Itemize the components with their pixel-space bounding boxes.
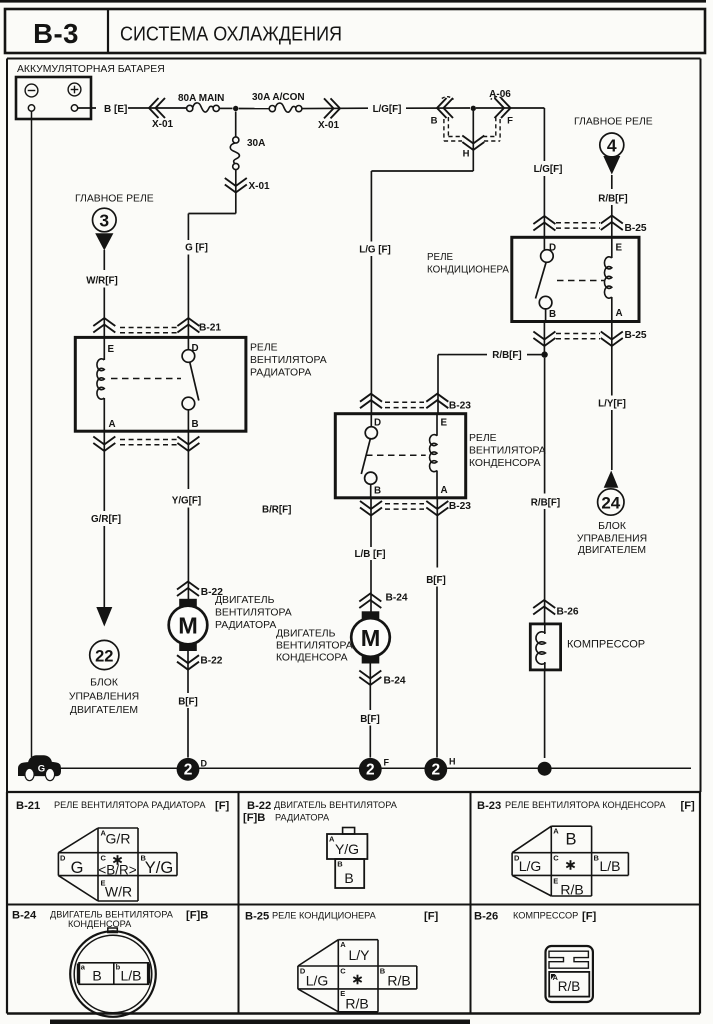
svg-text:X-01: X-01	[318, 120, 340, 131]
svg-text:СИСТЕМА ОХЛАЖДЕНИЯ: СИСТЕМА ОХЛАЖДЕНИЯ	[120, 23, 342, 46]
svg-text:B-26: B-26	[557, 607, 579, 618]
svg-text:B-22: B-22	[200, 656, 222, 667]
svg-text:A: A	[441, 485, 448, 496]
svg-text:B: B	[380, 967, 386, 976]
svg-text:E: E	[108, 344, 115, 355]
svg-text:[F]: [F]	[215, 800, 230, 812]
svg-text:30A A/CON: 30A A/CON	[252, 92, 305, 103]
svg-text:Y/G[F]: Y/G[F]	[172, 496, 201, 507]
svg-text:A: A	[553, 827, 559, 836]
svg-text:L/G[F]: L/G[F]	[534, 164, 563, 175]
svg-text:4: 4	[607, 136, 617, 156]
svg-text:УПРАВЛЕНИЯ: УПРАВЛЕНИЯ	[577, 534, 647, 545]
svg-text:ГЛАВНОЕ РЕЛЕ: ГЛАВНОЕ РЕЛЕ	[75, 194, 154, 205]
svg-text:ВЕНТИЛЯТОРА: ВЕНТИЛЯТОРА	[469, 446, 546, 457]
svg-text:КОНДЕНСОРА: КОНДЕНСОРА	[68, 919, 132, 929]
svg-text:L/Y[F]: L/Y[F]	[598, 399, 626, 410]
svg-text:B: B	[192, 419, 199, 430]
svg-text:24: 24	[601, 494, 620, 513]
svg-text:3: 3	[99, 211, 109, 231]
svg-text:R/B: R/B	[387, 973, 410, 989]
svg-text:Y/G: Y/G	[335, 841, 359, 857]
svg-text:B: B	[431, 116, 438, 127]
svg-text:B: B	[337, 860, 343, 869]
svg-text:L/G: L/G	[519, 858, 542, 874]
svg-text:КОНДЕНСОРА: КОНДЕНСОРА	[469, 458, 541, 469]
svg-text:[F]B: [F]B	[243, 812, 265, 824]
svg-text:КОМПРЕССОР: КОМПРЕССОР	[567, 639, 645, 651]
svg-text:B-21: B-21	[199, 323, 221, 334]
svg-text:УПРАВЛЕНИЯ: УПРАВЛЕНИЯ	[69, 692, 139, 703]
svg-text:B-25: B-25	[625, 330, 647, 341]
svg-text:L/Y: L/Y	[348, 947, 370, 963]
svg-text:B[F]: B[F]	[178, 697, 198, 708]
svg-text:E: E	[441, 418, 448, 429]
svg-text:РЕЛЕ ВЕНТИЛЯТОРА КОНДЕНСОРА: РЕЛЕ ВЕНТИЛЯТОРА КОНДЕНСОРА	[505, 800, 666, 810]
svg-text:B-25: B-25	[625, 223, 647, 234]
svg-text:W/R: W/R	[105, 884, 132, 900]
svg-text:B: B	[374, 486, 381, 497]
svg-text:L/B: L/B	[599, 858, 620, 874]
svg-text:R/B: R/B	[345, 996, 368, 1012]
svg-text:B-23: B-23	[449, 501, 471, 512]
svg-text:M: M	[178, 612, 198, 638]
svg-text:E: E	[616, 243, 623, 254]
svg-text:C: C	[101, 854, 107, 863]
svg-text:E: E	[553, 877, 558, 886]
svg-text:ВЕНТИЛЯТОРА: ВЕНТИЛЯТОРА	[215, 608, 292, 619]
svg-text:L/G[F]: L/G[F]	[373, 104, 402, 115]
svg-text:A: A	[109, 419, 116, 430]
svg-text:D: D	[201, 759, 208, 769]
svg-text:B-21: B-21	[16, 800, 40, 812]
svg-text:L/B [F]: L/B [F]	[354, 549, 385, 560]
svg-text:R/B[F]: R/B[F]	[531, 498, 560, 509]
svg-text:B[F]: B[F]	[360, 714, 380, 725]
svg-text:R/B: R/B	[558, 979, 581, 994]
svg-text:C: C	[340, 967, 346, 976]
svg-text:W/R[F]: W/R[F]	[86, 276, 118, 287]
svg-text:L/B: L/B	[120, 968, 141, 984]
svg-text:B-25: B-25	[245, 911, 269, 923]
svg-text:РЕЛЕ: РЕЛЕ	[469, 433, 497, 444]
svg-text:G/R[F]: G/R[F]	[91, 514, 121, 525]
svg-text:B[F]: B[F]	[426, 575, 446, 586]
svg-text:F: F	[384, 758, 390, 768]
svg-text:2: 2	[431, 762, 440, 779]
svg-text:ДВИГАТЕЛЕМ: ДВИГАТЕЛЕМ	[70, 705, 138, 716]
svg-text:ДВИГАТЕЛЕМ: ДВИГАТЕЛЕМ	[578, 545, 646, 556]
svg-text:РАДИАТОРА: РАДИАТОРА	[215, 620, 276, 631]
svg-text:R/B[F]: R/B[F]	[598, 194, 627, 205]
svg-text:ДВИГАТЕЛЬ ВЕНТИЛЯТОРА: ДВИГАТЕЛЬ ВЕНТИЛЯТОРА	[274, 800, 398, 810]
svg-text:B-23: B-23	[449, 401, 471, 412]
svg-text:G [F]: G [F]	[185, 243, 208, 254]
svg-text:B-22: B-22	[247, 800, 271, 812]
svg-text:A: A	[340, 940, 346, 949]
svg-text:ДВИГАТЕЛЬ: ДВИГАТЕЛЬ	[276, 629, 336, 640]
svg-text:РЕЛЕ ВЕНТИЛЯТОРА РАДИАТОРА: РЕЛЕ ВЕНТИЛЯТОРА РАДИАТОРА	[54, 800, 206, 810]
svg-text:B: B	[565, 831, 576, 849]
svg-text:G/R: G/R	[106, 831, 131, 847]
svg-text:G: G	[38, 764, 45, 775]
svg-text:Y/G: Y/G	[145, 859, 173, 877]
svg-text:X-01: X-01	[152, 119, 174, 130]
svg-text:[F]B: [F]B	[186, 910, 208, 922]
svg-text:B-24: B-24	[384, 676, 406, 687]
svg-text:L/G [F]: L/G [F]	[359, 245, 391, 256]
svg-text:КОМПРЕССОР: КОМПРЕССОР	[513, 911, 578, 921]
svg-text:C: C	[553, 854, 559, 863]
svg-text:H: H	[463, 149, 470, 160]
svg-text:РАДИАТОРА: РАДИАТОРА	[250, 368, 311, 379]
svg-text:[F]: [F]	[424, 911, 439, 923]
svg-text:БЛОК: БЛОК	[598, 521, 626, 532]
svg-text:B-24: B-24	[386, 593, 408, 604]
svg-text:30A: 30A	[247, 138, 265, 149]
svg-text:B: B	[92, 968, 101, 984]
svg-text:R/B: R/B	[560, 882, 583, 898]
svg-text:B/R[F]: B/R[F]	[262, 505, 291, 516]
svg-text:[F]: [F]	[681, 800, 696, 812]
svg-text:80A MAIN: 80A MAIN	[178, 93, 224, 104]
svg-text:РАДИАТОРА: РАДИАТОРА	[275, 813, 330, 823]
svg-text:B-3: B-3	[33, 18, 79, 49]
svg-text:D: D	[374, 418, 381, 429]
svg-text:2: 2	[184, 762, 193, 779]
svg-text:КОНДЕНСОРА: КОНДЕНСОРА	[276, 653, 348, 664]
svg-text:РЕЛЕ: РЕЛЕ	[427, 252, 453, 263]
svg-text:РЕЛЕ КОНДИЦИОНЕРА: РЕЛЕ КОНДИЦИОНЕРА	[272, 911, 377, 921]
svg-text:B: B	[344, 870, 353, 886]
svg-text:X-01: X-01	[249, 181, 271, 192]
svg-text:[F]: [F]	[582, 911, 597, 923]
svg-text:ВЕНТИЛЯТОРА: ВЕНТИЛЯТОРА	[250, 355, 327, 366]
svg-text:A: A	[616, 308, 623, 319]
svg-text:A-06: A-06	[489, 89, 511, 100]
svg-text:22: 22	[95, 648, 113, 666]
svg-text:B-23: B-23	[477, 800, 501, 812]
svg-text:F: F	[507, 116, 513, 127]
svg-text:M: M	[361, 625, 381, 651]
svg-text:РЕЛЕ: РЕЛЕ	[250, 343, 278, 354]
svg-text:АККУМУЛЯТОРНАЯ БАТАРЕЯ: АККУМУЛЯТОРНАЯ БАТАРЕЯ	[17, 64, 165, 75]
svg-text:B: B	[549, 309, 556, 320]
svg-text:B-24: B-24	[12, 910, 37, 922]
svg-text:L/G: L/G	[306, 973, 329, 989]
svg-text:ДВИГАТЕЛЬ: ДВИГАТЕЛЬ	[215, 595, 275, 606]
svg-text:H: H	[449, 757, 456, 767]
svg-text:2: 2	[366, 762, 375, 779]
svg-text:G: G	[71, 859, 84, 877]
svg-text:<B/R>: <B/R>	[98, 863, 136, 878]
svg-text:БЛОК: БЛОК	[90, 678, 118, 689]
svg-text:D: D	[60, 854, 66, 863]
svg-text:R/B[F]: R/B[F]	[492, 350, 521, 361]
svg-text:КОНДИЦИОНЕРА: КОНДИЦИОНЕРА	[427, 265, 509, 276]
svg-text:ГЛАВНОЕ РЕЛЕ: ГЛАВНОЕ РЕЛЕ	[574, 117, 653, 128]
svg-text:B-26: B-26	[474, 911, 498, 923]
svg-text:B [E]: B [E]	[104, 104, 127, 115]
svg-text:ВЕНТИЛЯТОРА: ВЕНТИЛЯТОРА	[276, 641, 353, 652]
